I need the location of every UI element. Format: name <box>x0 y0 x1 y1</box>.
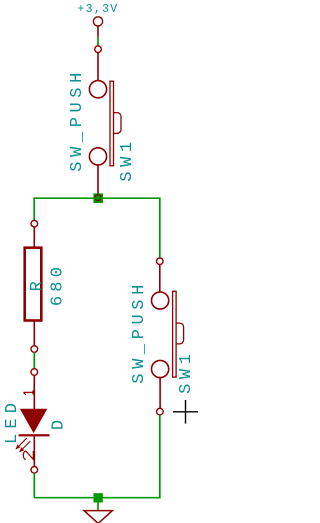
switch SW1b button plunger <box>176 323 184 344</box>
wire down to resistor <box>33 197 35 220</box>
pin-end circle LED pin 1 <box>31 369 38 376</box>
pin-end circle SW1b pin 2 <box>157 408 164 415</box>
wire power to SW1 pin <box>97 37 99 46</box>
pin number 1 (LED anode) <box>24 390 34 395</box>
LED D triangle <box>20 409 47 434</box>
svg-text:+3,3V: +3,3V <box>77 3 118 16</box>
pin-end circle R1 pin 2 <box>31 346 38 353</box>
pin SW1b pin 1 <box>159 265 161 293</box>
wire bottom bus horizontal <box>34 497 160 499</box>
svg-text:D: D <box>49 420 68 430</box>
cursor crosshair <box>173 400 198 424</box>
wire LED to bottom bus <box>33 473 35 498</box>
pin LED pin 2 <box>33 436 35 466</box>
power symbol stem <box>97 26 99 37</box>
switch SW1 bottom contact circle <box>89 148 106 165</box>
ground symbol <box>84 511 112 523</box>
pin-end circle R1 pin 1 <box>31 220 38 227</box>
resistor R body <box>25 248 42 321</box>
junction bottom <box>94 493 103 502</box>
wire right branch down <box>159 197 161 258</box>
switch SW1b actuator bar <box>173 291 177 377</box>
LED emission arrow 2 <box>20 441 30 451</box>
pin-end circle SW1b pin 1 <box>157 258 164 265</box>
svg-text:SW_PUSH: SW_PUSH <box>130 280 149 384</box>
switch SW1b top contact circle <box>152 292 169 309</box>
svg-text:R: R <box>28 281 47 291</box>
svg-text:SW1: SW1 <box>118 137 137 181</box>
wire SW1b to bottom bus <box>159 415 161 499</box>
pin R1 pin 1 <box>33 227 35 247</box>
wire horizontal top bus <box>34 197 160 199</box>
junction top <box>93 193 103 203</box>
LED cathode bar <box>19 434 50 436</box>
power symbol +3,3V circle <box>93 17 102 26</box>
svg-text:LED: LED <box>3 398 22 444</box>
LED emission arrow 1 <box>16 438 26 448</box>
svg-text:SW1: SW1 <box>177 349 196 393</box>
pin-end circle SW1 pin 2 <box>95 195 101 201</box>
svg-text:680: 680 <box>48 263 67 306</box>
pin-end circle SW1 pin 1 <box>95 46 102 53</box>
pin number 2 (LED cathode) <box>23 451 33 459</box>
switch SW1b bottom contact circle <box>152 360 169 377</box>
wire resistor to LED <box>33 352 35 368</box>
pin SW1 pin 1 <box>97 53 99 81</box>
switch SW1 actuator bar <box>110 81 114 166</box>
pin-end circle LED pin 2 <box>31 467 38 474</box>
svg-text:SW_PUSH: SW_PUSH <box>68 68 87 172</box>
pin R1 pin 2 <box>33 322 35 346</box>
pin SW1b pin 2 <box>159 378 161 409</box>
wire junction to ground <box>97 502 99 511</box>
switch SW1 button plunger <box>114 113 122 134</box>
pin LED pin 1 <box>33 375 35 409</box>
pin SW1 pin 2 <box>97 165 99 195</box>
switch SW1 top contact circle <box>89 81 106 98</box>
